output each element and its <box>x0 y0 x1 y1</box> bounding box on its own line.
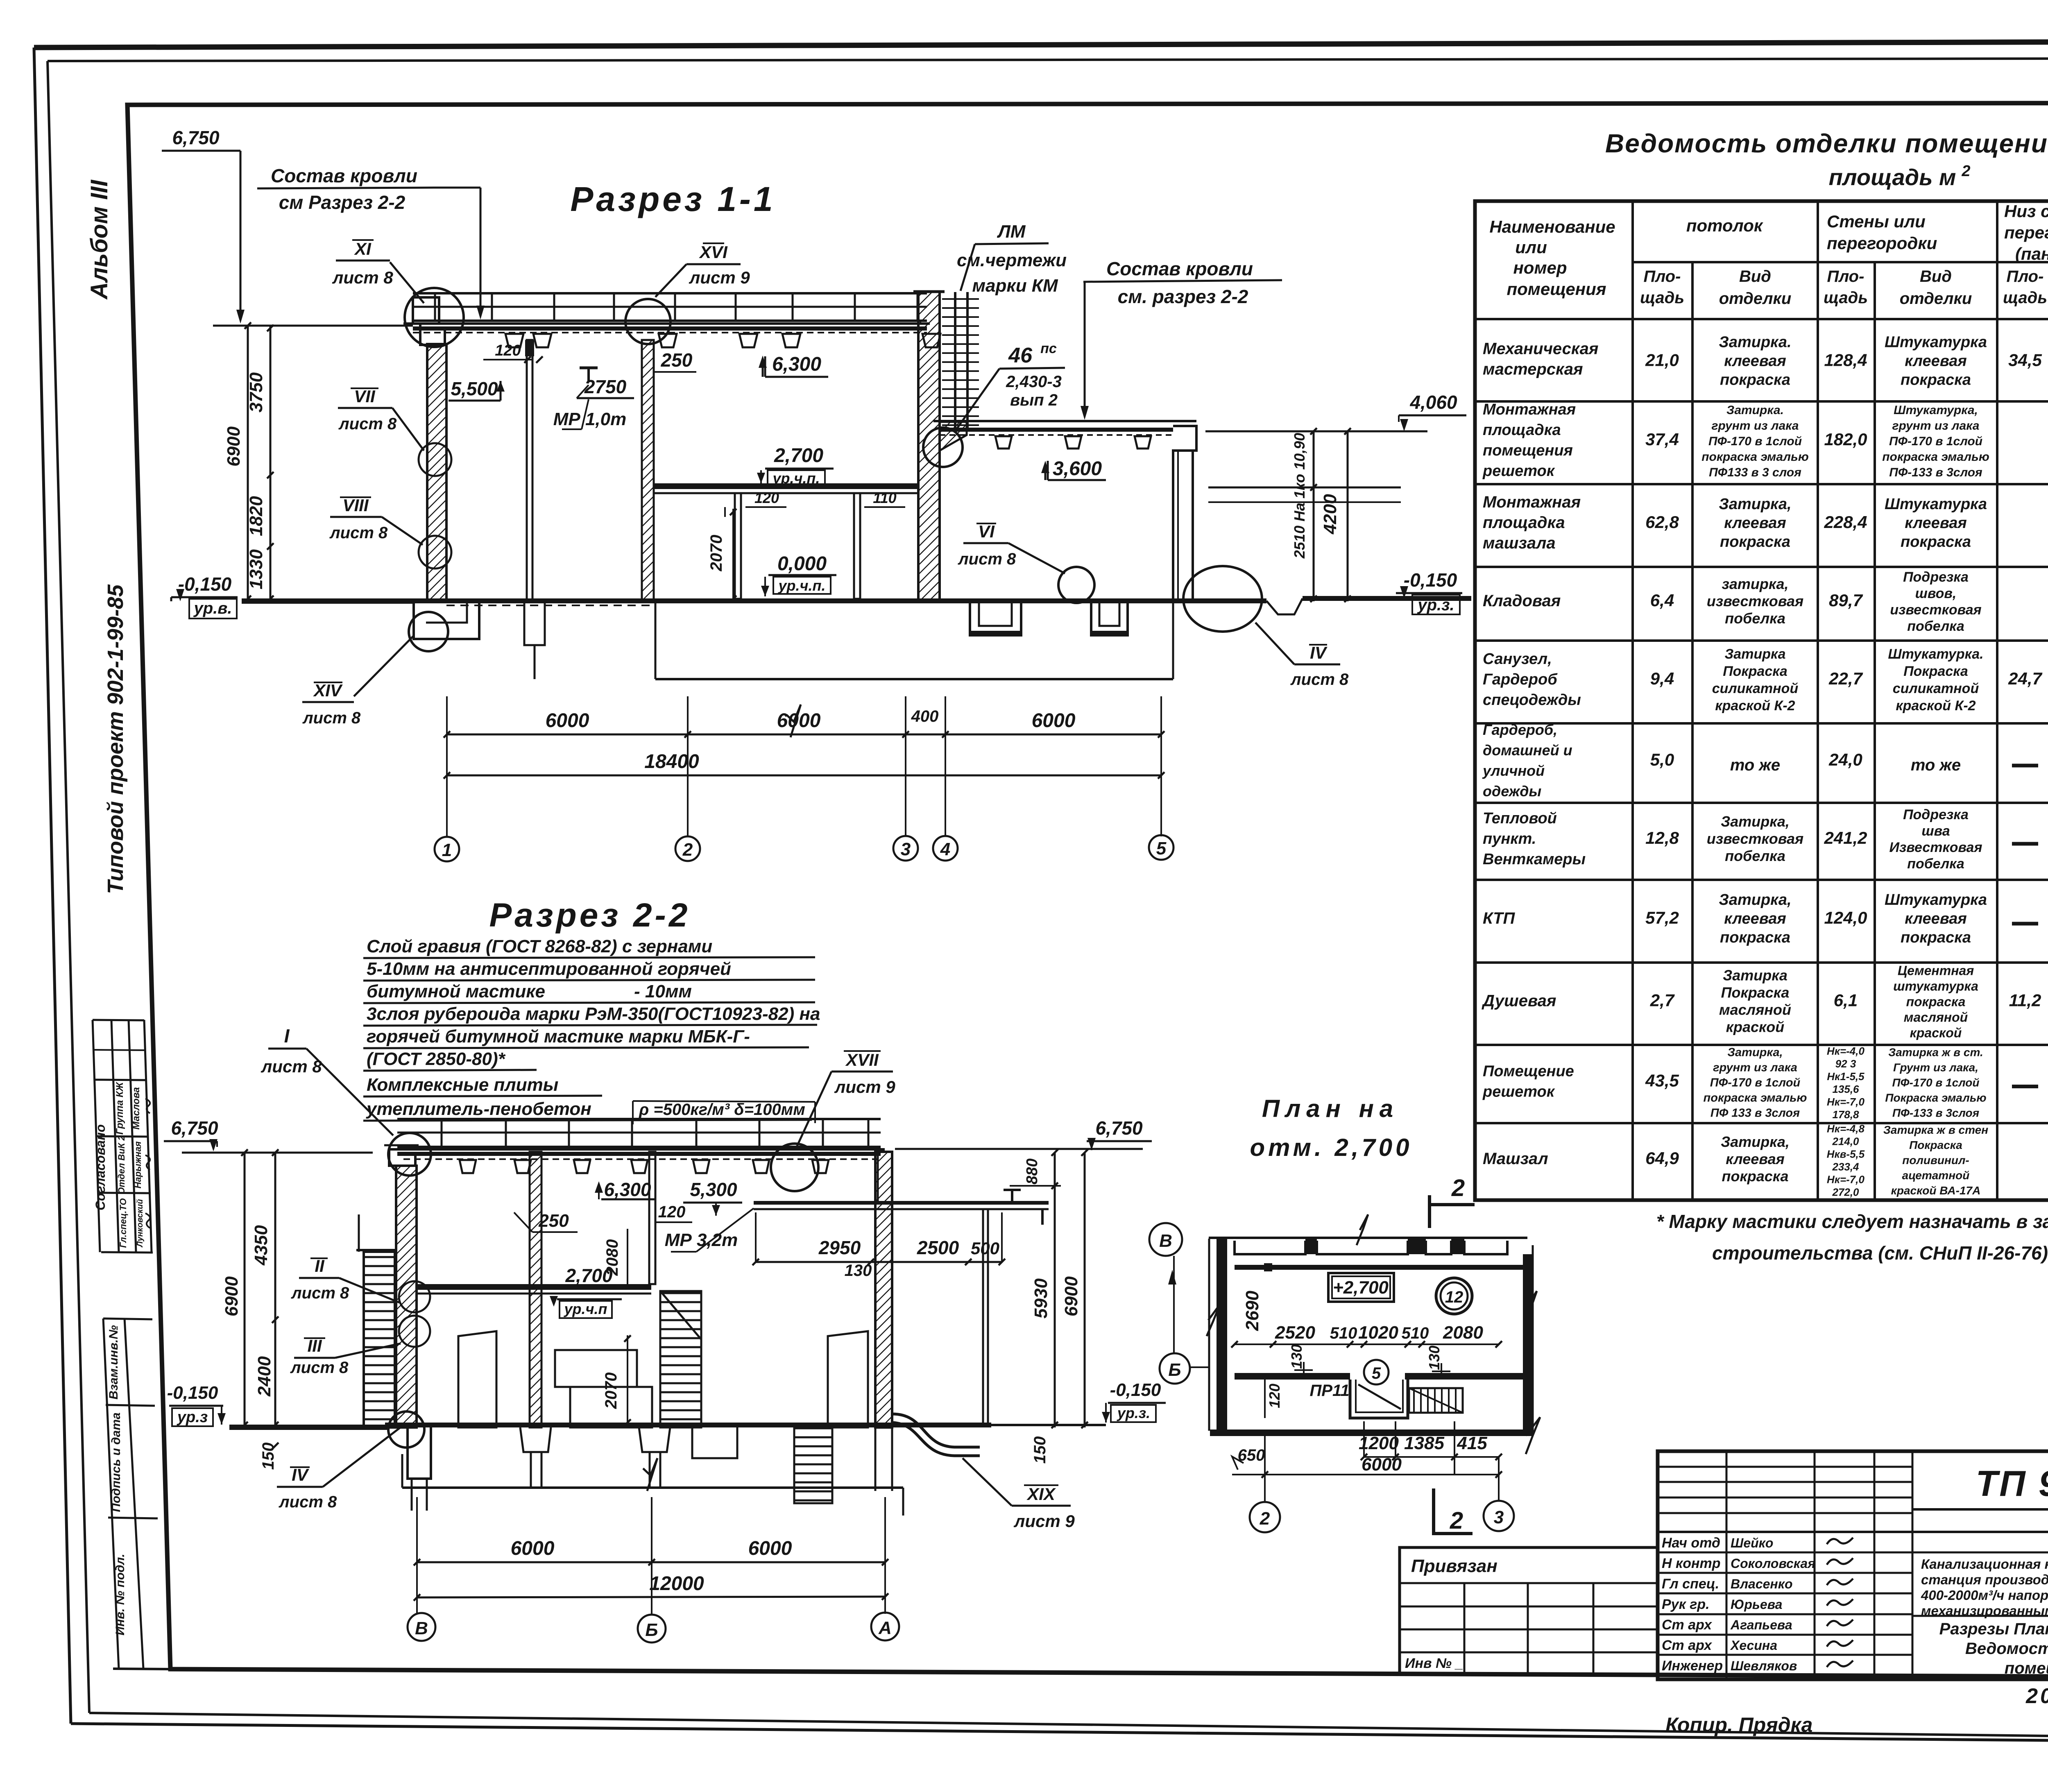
svg-text:37,4: 37,4 <box>1645 430 1679 449</box>
svg-text:ПР11: ПР11 <box>1310 1382 1350 1400</box>
svg-text:Разрезы План на отм 2,700: Разрезы План на отм 2,700 <box>1939 1620 2048 1638</box>
svg-text:Инв. № подл.: Инв. № подл. <box>113 1554 127 1635</box>
svg-text:5,0: 5,0 <box>1650 750 1674 769</box>
dim 120 mezzanine left <box>725 489 786 517</box>
plan dim 130 marks <box>1288 1344 1450 1380</box>
svg-text:марки КМ: марки КМ <box>972 276 1058 296</box>
svg-text:Состав кровли: Состав кровли <box>1106 258 1253 279</box>
svg-text:номер: номер <box>1513 258 1567 277</box>
finish table headers <box>1489 202 2048 317</box>
finish table grid <box>1475 201 2048 1200</box>
section 1-1 bottom dimension line 1 <box>444 707 1164 738</box>
svg-text:МР 1,0т: МР 1,0т <box>553 409 627 429</box>
plan interior dim line <box>1231 1341 1502 1348</box>
svg-text:6900: 6900 <box>222 1276 242 1316</box>
svg-text:Нк=-7,0: Нк=-7,0 <box>1827 1096 1864 1108</box>
dim 880 right 2-2 <box>1010 1149 1061 1189</box>
svg-text:Гардероб,: Гардероб, <box>1483 721 1557 738</box>
svg-text:покраска: покраска <box>1720 372 1790 389</box>
svg-text:клеевая: клеевая <box>1724 353 1786 370</box>
svg-text:Затирка: Затирка <box>1724 646 1785 662</box>
callout VII list 8 <box>338 387 424 451</box>
svg-text:5: 5 <box>1372 1364 1381 1382</box>
svg-text:покраска эмалью: покраска эмалью <box>1704 1092 1807 1105</box>
svg-text:Типовой проект 902-1-99-85: Типовой проект 902-1-99-85 <box>103 584 128 894</box>
svg-text:214,0: 214,0 <box>1832 1135 1859 1148</box>
svg-text:Инв № _: Инв № _ <box>1405 1656 1463 1671</box>
detail ellipse IV ground <box>1183 566 1262 632</box>
svg-text:3слоя рубероида марки РэМ-350(: 3слоя рубероида марки РэМ-350(ГОСТ10923-… <box>367 1004 820 1024</box>
approval stamp table <box>93 1020 153 1253</box>
svg-text:покраска: покраска <box>1720 929 1790 946</box>
section 1-1 interior partition 120 <box>525 340 534 601</box>
svg-text:Слой гравия (ГОСТ 8268-82) с з: Слой гравия (ГОСТ 8268-82) с зернами <box>367 936 712 956</box>
svg-text:2400: 2400 <box>254 1356 274 1397</box>
svg-text:3,600: 3,600 <box>1053 458 1102 480</box>
svg-text:6,300: 6,300 <box>604 1179 651 1200</box>
grid bubble 3 <box>893 836 918 861</box>
svg-text:130: 130 <box>1426 1346 1443 1370</box>
svg-text:Пло-: Пло- <box>2007 267 2044 285</box>
callout 46ps crane beam <box>954 341 1065 432</box>
svg-text:11,2: 11,2 <box>2009 991 2041 1010</box>
svg-text:Покраска: Покраска <box>1903 664 1968 679</box>
section 2-2 right wall <box>875 1152 892 1427</box>
svg-text:Затирка,: Затирка, <box>1727 1046 1783 1059</box>
plan grid bubble 2 <box>1250 1502 1280 1532</box>
svg-text:побелка: побелка <box>1907 856 1964 872</box>
svg-text:2: 2 <box>682 840 693 860</box>
title block signature rows <box>1662 1535 1853 1674</box>
svg-text:побелка: побелка <box>1725 610 1785 627</box>
svg-text:Нк=-4,0: Нк=-4,0 <box>1827 1045 1864 1057</box>
svg-text:Затирка.: Затирка. <box>1719 334 1791 351</box>
section 1-1 low building right wall <box>1173 451 1193 601</box>
dim 2510 text <box>1291 433 1308 559</box>
svg-text:150: 150 <box>1031 1436 1049 1464</box>
callout II list 8 <box>291 1256 399 1303</box>
section 2-2 floor line <box>385 1423 991 1427</box>
svg-text:6,750: 6,750 <box>171 1117 218 1139</box>
svg-text:Группа КЖ: Группа КЖ <box>114 1081 125 1135</box>
svg-text:см. разрез 2-2: см. разрез 2-2 <box>1118 286 1248 307</box>
svg-text:отделки: отделки <box>1900 290 1972 308</box>
dim 6900 left <box>224 426 244 467</box>
plan section mark 2 top <box>1430 1175 1475 1228</box>
svg-text:24,7: 24,7 <box>2008 669 2042 688</box>
svg-text:6000: 6000 <box>1362 1454 1402 1475</box>
finish table title <box>1605 129 2048 190</box>
dim 130 2-2 <box>845 1262 872 1280</box>
svg-text:вып 2: вып 2 <box>1010 391 1058 409</box>
callout XIV list 8 <box>302 636 414 727</box>
svg-text:6,4: 6,4 <box>1650 591 1674 610</box>
level mark -0.150 left 2-2 <box>167 1383 226 1426</box>
footnote mastic <box>1656 1211 2048 1264</box>
dim 150 left 2-2 <box>259 1443 279 1470</box>
svg-text:57,2: 57,2 <box>1645 908 1679 927</box>
intermediate level line right 2 <box>1208 501 1401 503</box>
svg-text:6000: 6000 <box>546 710 589 732</box>
grid bubble 1 <box>435 837 459 861</box>
svg-text:площадь м: площадь м <box>1829 164 1956 190</box>
svg-text:клеевая: клеевая <box>1724 910 1786 927</box>
label MR 3.2t <box>665 1208 754 1252</box>
monorail MR 1.0t symbol <box>580 368 598 381</box>
svg-text:Душевая: Душевая <box>1482 992 1556 1010</box>
svg-text:510: 510 <box>1330 1324 1357 1342</box>
detail circle wall base <box>409 612 448 651</box>
svg-text:ПФ-170 в 1слой: ПФ-170 в 1слой <box>1889 435 1982 448</box>
svg-text:лист 8: лист 8 <box>279 1493 337 1511</box>
svg-text:1820: 1820 <box>246 496 266 536</box>
grid bubble 4 <box>933 836 958 861</box>
finish table row 6 <box>1482 721 2048 800</box>
dim 2070 2-2 <box>602 1335 631 1426</box>
section 2-2 right footing <box>875 1427 892 1491</box>
svg-text:120: 120 <box>754 489 779 506</box>
plan top wall with windows <box>1209 1214 1527 1254</box>
svg-text:-0,150: -0,150 <box>167 1383 218 1403</box>
svg-text:помещений: помещений <box>2005 1659 2048 1677</box>
break mark on dimension line <box>786 705 801 737</box>
svg-text:Пло-: Пло- <box>1827 267 1864 285</box>
intermediate level line right <box>1208 487 1401 489</box>
section 2-2 interior column <box>530 1152 541 1427</box>
callout XIX list 9 <box>963 1458 1075 1531</box>
svg-text:Маслова: Маслова <box>131 1087 142 1130</box>
grid bubble V plan <box>1149 1223 1182 1256</box>
section 1-1 bottom dimension line 2 <box>444 751 1164 779</box>
svg-text:то же: то же <box>1911 756 1961 774</box>
svg-text:горячей битумной мастике марки: горячей битумной мастике марки МБК-Г- <box>367 1026 750 1047</box>
svg-text:Покраска: Покраска <box>1909 1139 1962 1151</box>
finish table row 11 <box>1483 1123 2048 1198</box>
svg-text:или: или <box>1515 238 1547 257</box>
svg-text:Затирка,: Затирка, <box>1721 1133 1790 1150</box>
svg-text:5,300: 5,300 <box>690 1179 737 1200</box>
svg-text:ур.ч.п.: ур.ч.п. <box>778 577 826 594</box>
svg-text:лист 8: лист 8 <box>291 1284 349 1302</box>
plan dim 650 and 6000 <box>1232 1446 1502 1478</box>
section 1-1 low building roof <box>933 421 1196 451</box>
svg-text:3: 3 <box>901 839 911 859</box>
svg-text:Привязан: Привязан <box>1411 1556 1497 1576</box>
svg-text:Нк=-4,8: Нк=-4,8 <box>1827 1123 1864 1135</box>
svg-text:грунт из лака: грунт из лака <box>1892 419 1980 433</box>
svg-text:битумной мастике: битумной мастике <box>367 981 545 1001</box>
svg-text:2510 На 1ко 10,90: 2510 На 1ко 10,90 <box>1291 433 1308 559</box>
svg-text:2080: 2080 <box>1443 1323 1483 1343</box>
svg-text:-0,150: -0,150 <box>178 573 232 595</box>
svg-text:Разрез 1-1: Разрез 1-1 <box>570 180 775 218</box>
svg-text:Гардероб: Гардероб <box>1483 671 1558 688</box>
svg-text:лист 8: лист 8 <box>338 415 397 433</box>
binding box Privyazan <box>1400 1547 1658 1674</box>
callout XVI list 9 <box>655 242 750 297</box>
section 1-1 roof structural slab <box>403 324 930 333</box>
svg-text:площадка: площадка <box>1483 514 1565 532</box>
svg-text:43,5: 43,5 <box>1645 1071 1679 1090</box>
callout XI list 8 <box>332 239 424 303</box>
svg-text:краской: краской <box>1910 1026 1962 1040</box>
section 1-1 underground pit <box>446 603 1173 679</box>
svg-text:241,2: 241,2 <box>1824 828 1867 847</box>
svg-text:Покраска эмалью: Покраска эмалью <box>1885 1092 1986 1104</box>
plan level box +2.700 <box>1328 1273 1394 1302</box>
plan break marks right <box>1526 1417 1540 1454</box>
dims 2950 2500 500 <box>752 1212 1005 1265</box>
svg-text:станция производительностью: станция производительностью <box>1921 1572 2048 1587</box>
svg-text:272,0: 272,0 <box>1832 1186 1859 1198</box>
svg-text:250: 250 <box>661 349 693 371</box>
plan title <box>1250 1095 1412 1161</box>
section 2-2 mezzanine slab 2.700 level <box>417 1284 651 1294</box>
svg-text:решеток: решеток <box>1482 462 1555 480</box>
plan left wall <box>1207 1239 1227 1431</box>
svg-text:Наименование: Наименование <box>1489 217 1615 236</box>
svg-text:лист 8: лист 8 <box>332 268 393 287</box>
svg-text:2: 2 <box>1961 163 1970 180</box>
callout XVII list 9 <box>797 1050 895 1147</box>
svg-text:2750: 2750 <box>584 376 627 397</box>
svg-text:6,750: 6,750 <box>1095 1117 1143 1139</box>
text Kopir Pryadka <box>1665 1713 1812 1736</box>
section 2-2 roof slab band <box>397 1119 881 1147</box>
svg-text:3750: 3750 <box>246 372 266 412</box>
svg-text:2,430-3: 2,430-3 <box>1006 373 1062 391</box>
svg-text:400: 400 <box>911 707 939 725</box>
svg-text:лист 8: лист 8 <box>302 709 361 727</box>
dim 6900 right <box>1061 1276 1081 1316</box>
svg-text:щадь: щадь <box>2003 289 2047 307</box>
grid bubble B <box>638 1615 666 1642</box>
svg-text:1020: 1020 <box>1358 1323 1398 1343</box>
detail circle column base 1-1 <box>1058 567 1094 603</box>
svg-text:ПФ-170 в 1слой: ПФ-170 в 1слой <box>1708 435 1802 448</box>
section 1-1 left wall <box>427 344 446 601</box>
svg-text:12: 12 <box>1445 1288 1464 1306</box>
svg-text:VIII: VIII <box>342 496 369 515</box>
svg-text:Хесина: Хесина <box>1730 1638 1777 1653</box>
right dimension chain 1-1 <box>1310 428 1351 602</box>
detail circle wall III <box>399 1316 430 1347</box>
svg-text:Нк1-5,5: Нк1-5,5 <box>1827 1070 1864 1083</box>
svg-text:Юрьева: Юрьева <box>1731 1597 1782 1612</box>
svg-text:поливинил-: поливинил- <box>1902 1154 1969 1167</box>
section 2-2 monorail canopy <box>754 1152 1049 1427</box>
level 5.300 2-2 <box>683 1179 742 1216</box>
grid leaders 2-2 <box>417 1497 885 1614</box>
svg-text:ПФ133 в 3 слоя: ПФ133 в 3 слоя <box>1709 466 1801 479</box>
svg-text:24,0: 24,0 <box>1828 750 1862 769</box>
callout IV list 8 bottom <box>277 1425 403 1511</box>
svg-text:4,060: 4,060 <box>1409 392 1457 413</box>
level mark -0.150 left <box>171 573 238 618</box>
svg-text:клеевая: клеевая <box>1726 1151 1785 1167</box>
finish table row 4 <box>1483 569 1982 634</box>
svg-text:ур.в.: ур.в. <box>193 599 232 617</box>
svg-text:покраска эмалью: покраска эмалью <box>1701 450 1809 464</box>
svg-text:клеевая: клеевая <box>1905 353 1967 370</box>
dim 4200 text <box>1320 494 1340 535</box>
svg-text:XVI: XVI <box>699 242 728 262</box>
level mark -0.150 right 1-1 <box>1396 569 1462 614</box>
svg-text:Затирка.: Затирка. <box>1726 403 1784 417</box>
svg-text:VII: VII <box>354 387 376 406</box>
callout IV list 8 right <box>1255 623 1349 689</box>
svg-text:Нкв-5,5: Нкв-5,5 <box>1827 1148 1865 1160</box>
plan right wall <box>1523 1245 1537 1436</box>
dim 1330 left <box>246 549 266 589</box>
svg-text:6,750: 6,750 <box>172 127 220 148</box>
plan inner top wall line <box>1235 1263 1527 1271</box>
svg-text:120: 120 <box>658 1203 686 1221</box>
svg-text:4200: 4200 <box>1320 494 1340 535</box>
svg-text:Затирка ж в стен: Затирка ж в стен <box>1883 1124 1988 1136</box>
level 6.300 mark <box>759 353 828 377</box>
dim 2070 vertical <box>707 509 736 602</box>
svg-text:швов,: швов, <box>1915 586 1957 601</box>
svg-text:Цементная: Цементная <box>1898 963 1974 978</box>
svg-text:Н контр: Н контр <box>1662 1556 1721 1571</box>
svg-text:178,8: 178,8 <box>1832 1108 1859 1121</box>
svg-text:182,0: 182,0 <box>1824 430 1867 449</box>
svg-text:510: 510 <box>1402 1324 1429 1342</box>
section 1-1 note roof composition left <box>257 165 485 319</box>
svg-text:Стены или: Стены или <box>1827 212 1926 231</box>
section 1-1 channel footing 1 <box>970 603 1021 635</box>
svg-text:Нач отд: Нач отд <box>1662 1535 1720 1551</box>
section 2-2 pit break mark <box>643 1458 657 1491</box>
section 1-1 mezzanine slab 2.700 <box>654 483 918 493</box>
section 2-2 exterior stair strip <box>356 1214 396 1427</box>
plan door bubble 5 <box>1364 1360 1389 1384</box>
svg-text:перегородки: перегородки <box>1827 233 1937 253</box>
level 0.000 mark <box>761 553 836 596</box>
svg-text:щадь: щадь <box>1640 289 1684 307</box>
svg-text:помещения: помещения <box>1483 442 1573 459</box>
svg-text:ЛМ: ЛМ <box>997 222 1026 242</box>
ground line left stub <box>242 598 414 604</box>
dim 6900 2-2 <box>222 1276 242 1316</box>
svg-text:2690: 2690 <box>1242 1291 1262 1331</box>
svg-text:12000: 12000 <box>649 1573 704 1595</box>
level 4.060 mark <box>1205 392 1466 431</box>
svg-text:34,5: 34,5 <box>2008 351 2042 370</box>
svg-text:ур.ч.п: ур.ч.п <box>564 1300 607 1317</box>
section 2-2 door leaf 2 <box>828 1331 868 1427</box>
svg-text:2,700: 2,700 <box>774 445 823 467</box>
grid bubble B plan <box>1160 1353 1190 1384</box>
svg-text:0,000: 0,000 <box>777 553 827 575</box>
svg-text:спецодежды: спецодежды <box>1483 691 1581 709</box>
callout I list 8 <box>261 1025 393 1135</box>
svg-text:Грунт из лака,: Грунт из лака, <box>1893 1061 1978 1074</box>
dim 110 mezzanine right <box>864 489 905 507</box>
svg-text:XVII: XVII <box>845 1050 879 1069</box>
svg-text:покраска эмалью: покраска эмалью <box>1882 450 1989 464</box>
svg-text:Затирка: Затирка <box>1723 967 1787 984</box>
title block code cell <box>1912 1463 2048 1509</box>
section 2-2 ground stub left <box>229 1425 387 1430</box>
svg-text:масляной: масляной <box>1904 1010 1968 1025</box>
svg-text:22,7: 22,7 <box>1828 669 1863 688</box>
section 1-1 floor line <box>403 598 941 603</box>
detail circle eaves 2-2 <box>388 1133 431 1176</box>
section 2-2 door leaf 1 <box>458 1331 496 1427</box>
svg-text:мастерская: мастерская <box>1483 360 1583 378</box>
svg-text:шва: шва <box>1921 823 1950 839</box>
svg-text:ПФ-133 в 3слоя: ПФ-133 в 3слоя <box>1889 466 1982 479</box>
svg-text:2,7: 2,7 <box>1650 991 1675 1010</box>
svg-text:В: В <box>1159 1231 1172 1251</box>
svg-text:89,7: 89,7 <box>1829 591 1863 610</box>
svg-text:отм. 2,700: отм. 2,700 <box>1250 1134 1412 1161</box>
section 1-1 left dimension chain <box>245 322 274 602</box>
plan section mark 2 bottom <box>1434 1488 1473 1535</box>
svg-text:135,6: 135,6 <box>1832 1083 1859 1095</box>
svg-text:Ведомость отделки: Ведомость отделки <box>1965 1640 2048 1658</box>
svg-text:Шейко: Шейко <box>1731 1536 1773 1550</box>
section 1-1 mezzanine partition 1 <box>735 493 741 599</box>
svg-text:Затирка ж в ст.: Затирка ж в ст. <box>1888 1046 1983 1059</box>
svg-text:Гл спец.: Гл спец. <box>1662 1576 1719 1592</box>
svg-text:лист 8: лист 8 <box>329 524 388 542</box>
svg-text:Подрезка: Подрезка <box>1903 807 1969 822</box>
svg-text:покраска: покраска <box>1906 995 1966 1009</box>
svg-text:XIV: XIV <box>313 681 343 700</box>
svg-text:120: 120 <box>495 342 521 359</box>
svg-text:лист 9: лист 9 <box>1013 1511 1075 1531</box>
svg-text:Штукатурка: Штукатурка <box>1885 496 1987 513</box>
title block frame <box>1658 1451 2048 1679</box>
svg-text:124,0: 124,0 <box>1824 908 1867 927</box>
svg-text:12,8: 12,8 <box>1645 828 1679 847</box>
svg-text:5: 5 <box>1156 838 1167 859</box>
level 6.300 2-2 <box>595 1179 655 1200</box>
finish table row 8 <box>1483 891 2048 946</box>
svg-text:64,9: 64,9 <box>1645 1149 1679 1168</box>
dim 5500 <box>449 378 505 401</box>
inventory stamp cells <box>103 1319 170 1669</box>
svg-text:2,700: 2,700 <box>565 1265 613 1286</box>
svg-text:лист 9: лист 9 <box>689 268 750 287</box>
detail circle at roof left <box>405 288 464 347</box>
svg-text:грунт из лака: грунт из лака <box>1712 419 1799 433</box>
svg-text:грунт из лака: грунт из лака <box>1713 1061 1797 1074</box>
svg-text:Помещение: Помещение <box>1483 1063 1574 1080</box>
grid leader lines 1-1 <box>447 696 1161 836</box>
plan bottom wall <box>1210 1430 1523 1436</box>
svg-text:2500: 2500 <box>917 1237 959 1258</box>
svg-text:решеток: решеток <box>1482 1083 1555 1101</box>
svg-text:3: 3 <box>1494 1507 1504 1527</box>
svg-text:то же: то же <box>1730 756 1780 774</box>
svg-text:Затирка,: Затирка, <box>1719 496 1791 513</box>
title block left grid <box>1658 1451 2048 1679</box>
section 2-2 roof structural slab <box>389 1149 885 1159</box>
section 1-1 roof slab band <box>413 293 927 321</box>
svg-text:Монтажная: Монтажная <box>1483 493 1581 511</box>
svg-text:Тепловой: Тепловой <box>1483 810 1557 827</box>
svg-text:Нк=-7,0: Нк=-7,0 <box>1827 1174 1864 1186</box>
svg-text:Штукатурка,: Штукатурка, <box>1894 403 1978 417</box>
svg-text:92 3: 92 3 <box>1835 1058 1856 1070</box>
svg-text:- 10мм: - 10мм <box>634 981 692 1001</box>
svg-text:Соколовская: Соколовская <box>1731 1556 1815 1571</box>
plan dim texts row <box>1275 1323 1483 1343</box>
